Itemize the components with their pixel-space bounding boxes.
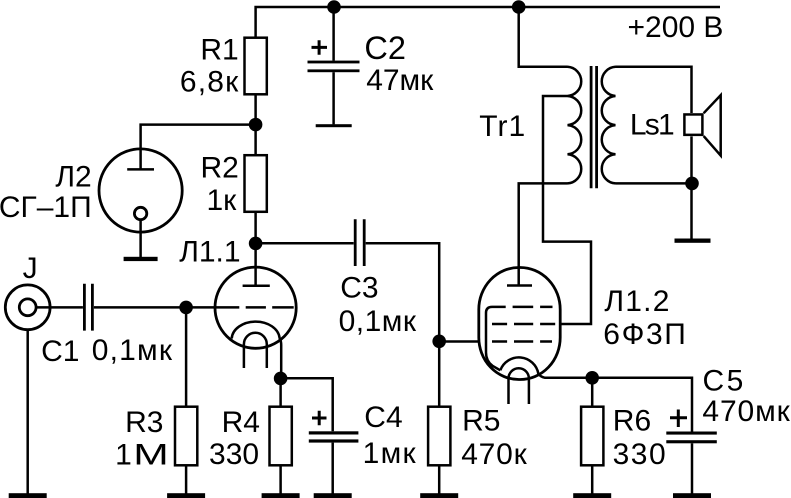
svg-text:Л2: Л2 [55, 161, 91, 194]
svg-text:СГ–1П: СГ–1П [0, 191, 92, 224]
svg-text:0,1мк: 0,1мк [339, 305, 417, 338]
svg-text:1мк: 1мк [363, 437, 417, 470]
svg-text:6Ф3П: 6Ф3П [603, 318, 687, 351]
svg-text:M: M [133, 438, 168, 471]
svg-text:R3: R3 [125, 406, 163, 439]
svg-text:C2: C2 [364, 30, 406, 66]
svg-text:1к: 1к [206, 184, 237, 217]
svg-text:R4: R4 [222, 406, 260, 439]
svg-text:Л1.2: Л1.2 [604, 285, 670, 318]
svg-text:+200 В: +200 В [628, 11, 724, 44]
svg-text:330: 330 [613, 438, 668, 471]
svg-text:0,1мк: 0,1мк [92, 334, 173, 367]
svg-text:Л1.1: Л1.1 [179, 235, 240, 268]
svg-text:470к: 470к [461, 438, 527, 471]
svg-text:C4: C4 [364, 401, 402, 434]
svg-text:R5: R5 [462, 405, 500, 438]
svg-text:R6: R6 [613, 404, 651, 437]
svg-text:C3: C3 [340, 271, 378, 304]
svg-text:6,8к: 6,8к [180, 65, 240, 98]
svg-text:470мк: 470мк [702, 395, 790, 428]
svg-text:R2: R2 [200, 152, 238, 185]
svg-text:C1: C1 [41, 335, 79, 368]
svg-text:R1: R1 [200, 34, 238, 67]
svg-text:1: 1 [115, 438, 132, 471]
svg-text:Tr1: Tr1 [479, 110, 526, 143]
svg-text:C5: C5 [703, 365, 746, 398]
svg-text:J: J [23, 252, 38, 285]
svg-text:47мк: 47мк [366, 64, 434, 97]
svg-text:330: 330 [209, 438, 259, 471]
svg-text:Ls1: Ls1 [630, 109, 674, 142]
